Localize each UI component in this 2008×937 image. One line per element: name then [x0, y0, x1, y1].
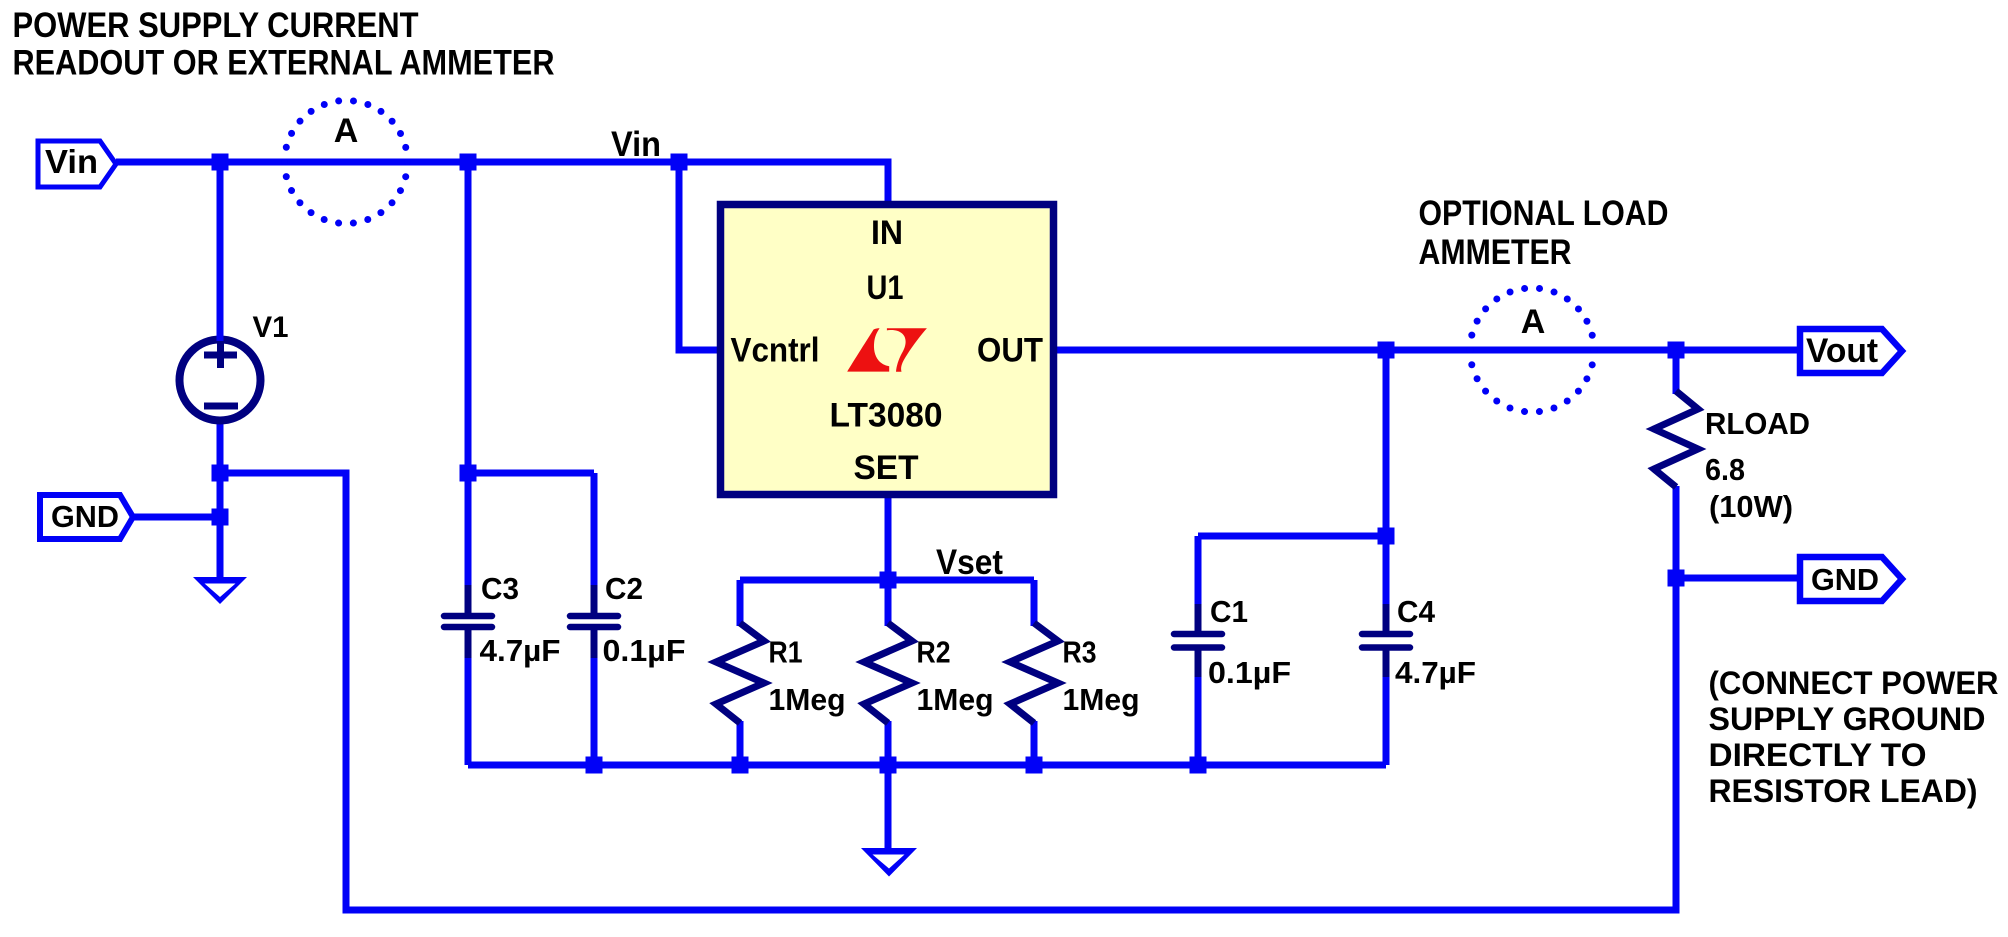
wire C3 branch upper — [465, 162, 472, 587]
wire R3 top lead — [1031, 580, 1038, 626]
C2 plates — [570, 616, 618, 627]
wire top rail Vin to IN corner — [116, 162, 888, 206]
wire V1 top lead — [217, 162, 224, 338]
wire C3 branch lower — [465, 656, 472, 765]
wire OUT rail — [1053, 347, 1800, 354]
junction node Vset — [880, 572, 897, 589]
junction node GND left — [212, 509, 229, 526]
junction node R3 bottom — [1026, 757, 1043, 774]
svg-text:OPTIONAL LOAD: OPTIONAL LOAD — [1419, 194, 1669, 233]
svg-text:(10W): (10W) — [1709, 490, 1793, 524]
C3 plates — [444, 616, 492, 627]
resistor RLOAD — [1654, 391, 1810, 524]
V1 body circle — [180, 340, 261, 421]
R2 zigzag — [864, 623, 912, 723]
wire C4 branch upper — [1383, 350, 1390, 606]
R1 zigzag — [716, 623, 764, 723]
junction node on Vin rail at V1 — [212, 154, 229, 171]
svg-text:RLOAD: RLOAD — [1705, 406, 1810, 441]
svg-text:4.7µF: 4.7µF — [1395, 655, 1476, 690]
U1 body — [721, 205, 1054, 495]
wire C2 branch upper — [591, 473, 598, 587]
wire overlap at V1 top — [217, 332, 224, 341]
resistor R3 — [1010, 623, 1140, 723]
svg-text:A: A — [334, 112, 359, 150]
svg-text:GND: GND — [1811, 562, 1879, 597]
wire R1 top lead — [737, 580, 744, 626]
port flag Vin — [38, 141, 116, 187]
wire R2 top lead — [885, 580, 892, 626]
junction node R2 bottom — [880, 757, 897, 774]
svg-text:IN: IN — [871, 214, 903, 252]
R3 zigzag — [1010, 623, 1058, 723]
ammeter A1 dotted circle left — [285, 101, 408, 224]
wire Vset rail — [740, 577, 1034, 584]
svg-text:C3: C3 — [481, 571, 519, 606]
C4 leads — [1383, 604, 1390, 677]
wire long bottom return — [220, 473, 1676, 910]
junction node GND right — [1668, 570, 1685, 587]
svg-text:A: A — [1521, 303, 1546, 341]
capacitor C3 — [444, 571, 561, 668]
resistor R2 — [864, 623, 994, 723]
svg-text:R1: R1 — [769, 635, 803, 670]
svg-text:R3: R3 — [1063, 635, 1097, 670]
svg-text:U1: U1 — [867, 269, 904, 307]
wire GND right stub — [1676, 575, 1800, 582]
C1 leads — [1195, 604, 1202, 677]
wire C4 branch lower — [1383, 675, 1390, 765]
port flag Vout — [1800, 329, 1902, 373]
capacitor C1 — [1174, 594, 1291, 690]
port flag GND left — [40, 495, 133, 539]
voltage source V1 — [180, 311, 289, 421]
svg-text:1Meg: 1Meg — [769, 682, 846, 717]
svg-text:4.7µF: 4.7µF — [480, 633, 561, 668]
ground symbol below R2 — [861, 848, 917, 877]
svg-text:Vcntrl: Vcntrl — [731, 332, 820, 370]
svg-text:V1: V1 — [253, 311, 289, 344]
svg-text:AMMETER: AMMETER — [1419, 233, 1572, 272]
svg-text:POWER SUPPLY CURRENT: POWER SUPPLY CURRENT — [13, 6, 419, 45]
wire R3 bottom lead — [1031, 721, 1038, 765]
svg-text:1Meg: 1Meg — [1063, 682, 1140, 717]
junction node on Vin rail at Vcntrl — [671, 154, 688, 171]
port flag GND right — [1800, 557, 1902, 601]
svg-text:RESISTOR LEAD): RESISTOR LEAD) — [1709, 773, 1978, 809]
svg-text:LT3080: LT3080 — [830, 397, 943, 435]
svg-text:READOUT OR EXTERNAL AMMETER: READOUT OR EXTERNAL AMMETER — [13, 44, 555, 83]
junction node C4 at C1 link — [1378, 528, 1395, 545]
svg-text:OUT: OUT — [977, 332, 1043, 370]
V1 minus sign — [204, 403, 238, 410]
wire V1 bottom lead to ground — [217, 422, 224, 577]
svg-text:DIRECTLY TO: DIRECTLY TO — [1709, 737, 1927, 773]
wire GND flag stub — [133, 514, 220, 521]
wire C2 jumper — [468, 470, 594, 477]
svg-text:SET: SET — [854, 449, 919, 487]
svg-text:Vout: Vout — [1806, 332, 1878, 370]
capacitor C2 — [570, 571, 686, 668]
wire RLOAD bottom lead — [1673, 486, 1680, 578]
svg-text:SUPPLY GROUND: SUPPLY GROUND — [1709, 701, 1986, 737]
wire RLOAD top lead — [1673, 350, 1680, 394]
svg-text:C2: C2 — [605, 571, 643, 606]
svg-text:R2: R2 — [917, 635, 951, 670]
junction node C3 line at C2 jumper — [460, 465, 477, 482]
ammeter A2 dotted circle right — [1470, 288, 1594, 412]
svg-text:0.1µF: 0.1µF — [1208, 655, 1291, 690]
svg-text:0.1µF: 0.1µF — [603, 633, 686, 668]
svg-text:1Meg: 1Meg — [917, 682, 994, 717]
svg-text:C4: C4 — [1397, 594, 1436, 629]
resistor R1 — [716, 623, 846, 723]
V1 plus sign — [204, 342, 237, 368]
IC U1 LT3080 — [721, 205, 1054, 495]
junction node C2 bottom — [586, 757, 603, 774]
svg-text:GND: GND — [51, 499, 119, 534]
wire C2 branch lower — [591, 656, 598, 765]
wire bottom rail — [468, 762, 1386, 769]
wire SET lead — [885, 496, 892, 580]
C2 leads — [591, 585, 598, 658]
junction node C1 bottom — [1190, 757, 1207, 774]
RLOAD zigzag — [1654, 391, 1698, 487]
junction node R1 bottom — [732, 757, 749, 774]
logo LT red — [847, 328, 927, 371]
wire R1 bottom lead — [737, 721, 744, 765]
C4 plates — [1362, 634, 1410, 648]
svg-text:(CONNECT POWER: (CONNECT POWER — [1709, 665, 1999, 701]
C1 plates — [1174, 634, 1222, 648]
junction node OUT at RLOAD — [1668, 342, 1685, 359]
capacitor C4 — [1362, 594, 1476, 690]
junction node V1 bottom — [212, 465, 229, 482]
wire C1 link horizontal — [1198, 533, 1386, 540]
C3 leads — [465, 585, 472, 658]
wire C1 lower — [1195, 675, 1202, 765]
wire C1 upper — [1195, 536, 1202, 606]
wire R2 bottom lead to ground — [885, 721, 892, 848]
ground symbol below V1 — [193, 577, 247, 604]
svg-text:Vin: Vin — [611, 125, 661, 164]
svg-text:6.8: 6.8 — [1705, 453, 1745, 487]
junction node OUT at C4 — [1378, 342, 1395, 359]
svg-text:Vin: Vin — [45, 143, 98, 180]
junction node on Vin rail at C3 — [460, 154, 477, 171]
svg-text:Vset: Vset — [936, 543, 1003, 582]
wire Vcntrl branch — [679, 162, 719, 350]
svg-text:C1: C1 — [1210, 594, 1248, 629]
